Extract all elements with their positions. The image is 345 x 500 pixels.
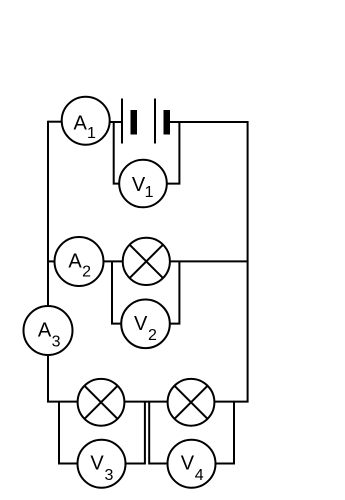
wire: V4 right branch	[216, 402, 235, 464]
wire: V1 right branch	[167, 122, 180, 184]
voltmeter V2	[121, 300, 170, 349]
svg-text:3: 3	[52, 333, 61, 350]
svg-text:3: 3	[104, 467, 113, 484]
wire: V3 right branch	[126, 402, 145, 464]
wire: V1 left branch	[114, 122, 120, 184]
lamp L3 (bottom right)	[168, 379, 215, 426]
wire: A2 to lamp L1	[103, 260, 122, 262]
svg-text:V: V	[90, 453, 104, 475]
svg-text:2: 2	[82, 263, 91, 280]
label A2	[68, 250, 91, 280]
wire: V3 left branch	[59, 402, 78, 464]
svg-text:A: A	[74, 113, 88, 135]
svg-text:V: V	[134, 313, 148, 335]
svg-text:A: A	[38, 319, 52, 341]
label V3	[90, 453, 113, 485]
wire: battery to top-right corner, right rail down to bottom wire, left to lamp L3	[170, 122, 248, 402]
battery BT1 cell 2 short plate	[164, 110, 171, 135]
svg-text:A: A	[68, 250, 82, 272]
wire: left rail lower segment (A3 bottom to bottom-left corner then right to lamp L2)	[48, 355, 77, 402]
svg-text:2: 2	[148, 327, 157, 344]
voltmeter V4	[168, 440, 216, 488]
label A3	[38, 319, 61, 350]
voltmeter V1	[119, 160, 167, 208]
wire: lamp L1 to right rail	[170, 260, 248, 262]
wire: V2 left branch	[112, 261, 121, 323]
svg-text:1: 1	[145, 184, 154, 201]
label V2	[134, 313, 157, 344]
svg-text:4: 4	[195, 467, 204, 484]
wire: A1 right stub to battery	[110, 121, 122, 123]
battery BT1 cell 2 long plate	[154, 99, 156, 144]
ammeter A1	[62, 97, 110, 145]
battery BT1 cell 1 short plate	[131, 110, 138, 135]
wire: V4 left branch	[149, 402, 167, 464]
label A1	[74, 113, 96, 142]
label V1	[132, 174, 154, 201]
label V4	[181, 453, 204, 484]
ammeter A3	[24, 306, 73, 355]
wire: bottom wire between lamps L2 and L3	[125, 401, 168, 403]
lamp L1 (middle)	[123, 238, 170, 285]
voltmeter V3	[78, 440, 126, 488]
ammeter A2	[55, 237, 104, 286]
lamp L2 (bottom left)	[78, 379, 125, 426]
wire: A2 left stub from rail	[48, 260, 55, 262]
wire: A1 left stub to left rail	[48, 121, 62, 123]
battery BT1 cell 1 long plate	[121, 99, 123, 144]
wire: left rail upper segment (A1 down to A3 top, passing A2 junction)	[47, 121, 49, 307]
svg-text:V: V	[181, 453, 195, 475]
wire: V2 right branch	[170, 261, 180, 323]
svg-text:1: 1	[87, 125, 96, 142]
